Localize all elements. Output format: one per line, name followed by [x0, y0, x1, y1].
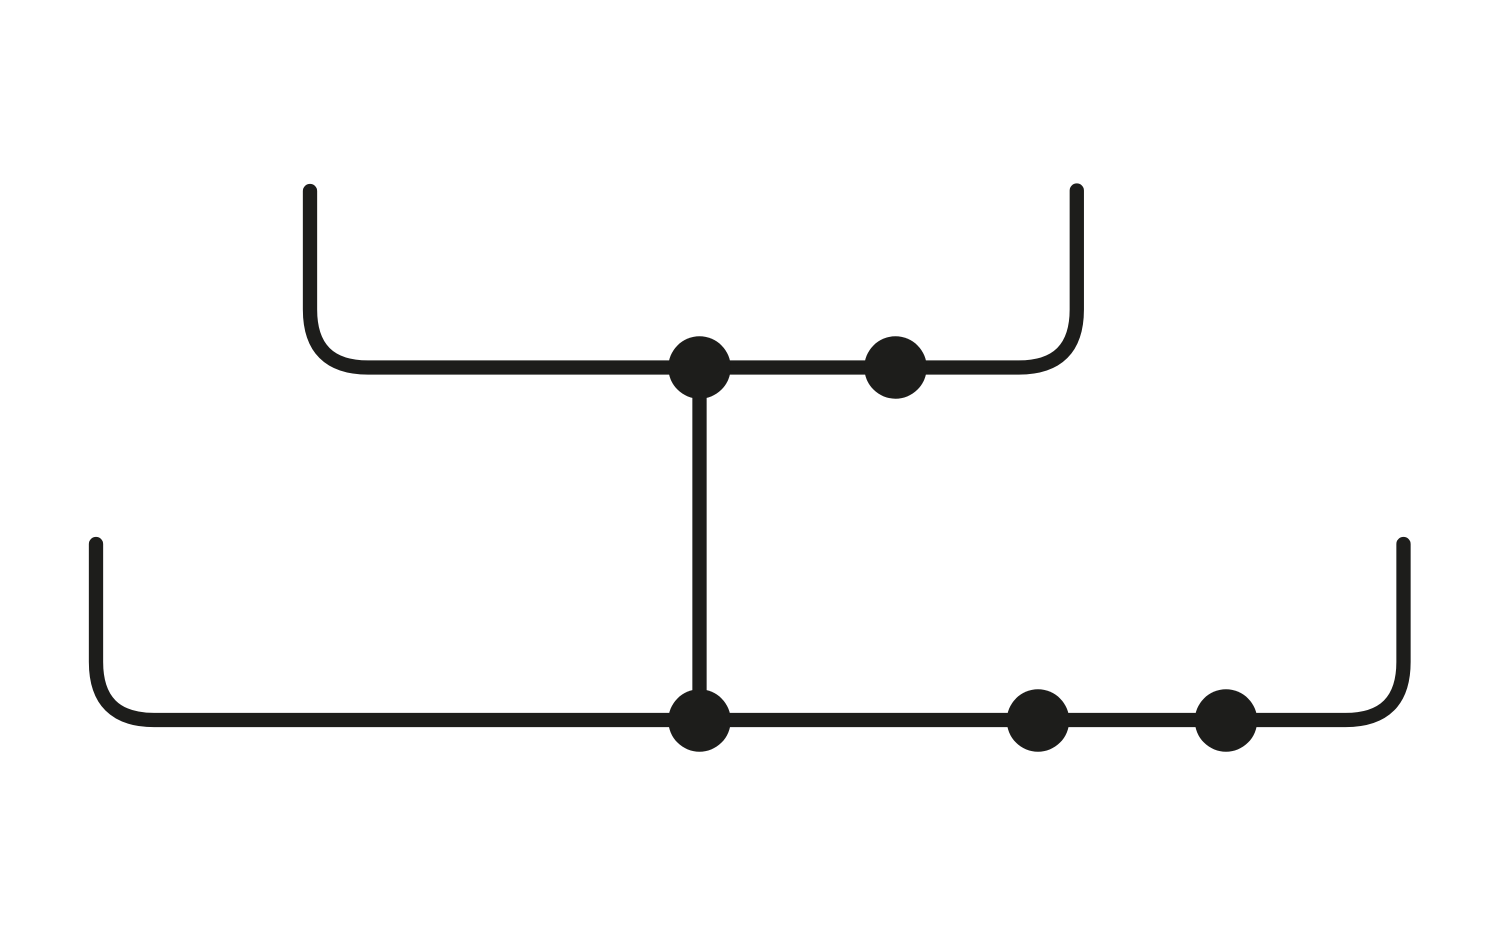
- junction dot (upper rail / bridge connection): [668, 336, 730, 398]
- clamp point dot (lower rail, left): [1007, 689, 1069, 751]
- wire (vertical bridge between upper and lower rails): [692, 368, 706, 721]
- clamp point dot (lower rail, right): [1195, 689, 1257, 751]
- junction dot (lower rail / bridge connection): [668, 689, 730, 751]
- bus bar 1 (upper potential rail with upturned terminal ends): [310, 191, 1077, 368]
- clamp point dot (upper rail): [864, 336, 926, 398]
- bus bar 2 (lower potential rail with upturned terminal ends): [96, 544, 1404, 720]
